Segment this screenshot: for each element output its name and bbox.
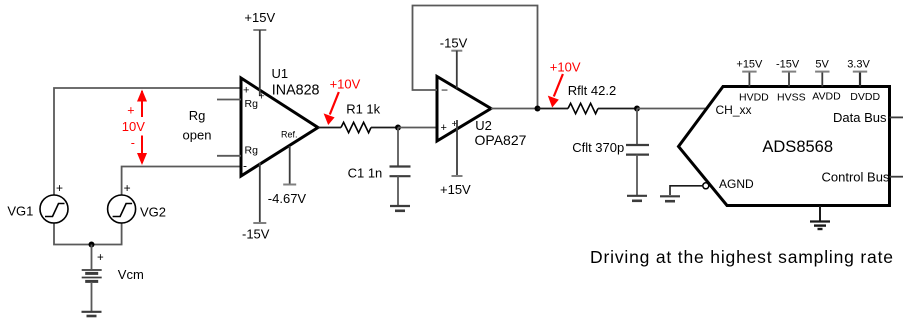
svg-text:+15V: +15V — [244, 10, 275, 25]
wire node down to C1 — [397, 128, 399, 167]
svg-text:Rg: Rg — [245, 145, 259, 157]
svg-text:AVDD: AVDD — [812, 90, 841, 102]
wire VG2 bottom to node — [92, 223, 122, 245]
wire node down to Cflt — [636, 109, 638, 145]
U1 positive supply pin +15V — [253, 30, 266, 96]
capacitor Cflt — [626, 145, 649, 155]
U1 Ref pin — [283, 146, 296, 185]
U2 feedback loop wire — [413, 6, 538, 109]
svg-text:HVDD: HVDD — [739, 91, 769, 103]
node junction R1/C1/U2 — [395, 125, 401, 131]
ground at AGND — [660, 196, 680, 201]
svg-text:INA828: INA828 — [272, 82, 320, 98]
svg-text:R1 1k: R1 1k — [346, 102, 380, 117]
AVDD supply pin 5V — [815, 72, 829, 87]
svg-text:5V: 5V — [815, 58, 829, 70]
U2 negative supply pin -15V — [451, 51, 462, 89]
node junction U2 output/feedback — [535, 106, 541, 112]
svg-text:open: open — [183, 127, 212, 142]
svg-text:C1 1n: C1 1n — [348, 166, 383, 181]
red annotation arrow +10V at U1 output — [324, 92, 339, 125]
svg-text:U1: U1 — [272, 66, 289, 81]
HVSS supply pin -15V — [782, 72, 796, 87]
svg-text:Ref.: Ref. — [281, 130, 298, 140]
U1 Rg pin stub lower (open) — [217, 155, 241, 157]
svg-text:DVDD: DVDD — [850, 91, 880, 103]
op-amp U1 INA828 triangle — [241, 78, 318, 176]
wire battery to ground — [91, 282, 93, 311]
wire C1 to ground — [397, 176, 399, 205]
svg-text:+: + — [259, 91, 265, 103]
svg-text:3.3V: 3.3V — [847, 58, 870, 70]
svg-text:+: + — [97, 252, 104, 264]
svg-text:U2: U2 — [475, 118, 492, 133]
red annotation arrow +10V at U2 output — [548, 74, 563, 108]
wire Cflt to ground — [636, 155, 638, 195]
svg-text:-4.67V: -4.67V — [268, 191, 307, 206]
wire node to Rflt — [538, 108, 569, 110]
node junction Rflt/Cflt/ADC — [634, 106, 640, 112]
wire R1 to node — [371, 127, 398, 129]
capacitor C1 — [390, 167, 411, 177]
svg-text:-: - — [243, 159, 247, 173]
voltage source VG1 — [40, 195, 68, 223]
svg-text:CH_xx: CH_xx — [716, 103, 752, 117]
wire VG1 bottom to node — [54, 223, 92, 245]
ground below C1 — [390, 206, 410, 211]
DVDD supply pin 3.3V — [853, 72, 867, 87]
svg-text:Data Bus: Data Bus — [833, 110, 887, 125]
svg-text:-: - — [131, 136, 135, 150]
resistor R1 — [341, 122, 371, 132]
ADC ADS8568 body — [679, 87, 890, 206]
svg-text:+15V: +15V — [736, 58, 763, 70]
svg-text:−: − — [441, 83, 448, 97]
svg-text:+15V: +15V — [440, 182, 471, 197]
U2 positive supply pin +15V — [452, 120, 463, 176]
svg-text:Driving at the highest samplin: Driving at the highest sampling rate — [590, 247, 894, 267]
svg-text:VG1: VG1 — [7, 203, 33, 218]
wire AGND to ground — [670, 186, 703, 195]
pin stub Data Bus — [890, 116, 904, 118]
svg-text:+: + — [243, 85, 249, 97]
svg-text:HVSS: HVSS — [777, 91, 806, 103]
red measurement arrow +10V between input wires — [137, 90, 147, 166]
ground below Cflt — [627, 196, 647, 201]
wire Rflt to node — [598, 108, 637, 110]
svg-text:AGND: AGND — [719, 177, 754, 191]
svg-text:Rg: Rg — [189, 108, 206, 123]
svg-text:-15V: -15V — [242, 227, 270, 242]
wire VG1 top to U1 + input — [54, 88, 240, 195]
pin stub Control Bus — [890, 176, 904, 178]
svg-text:+: + — [124, 181, 131, 195]
wire U1 output to R1 — [318, 127, 341, 129]
svg-text:-15V: -15V — [776, 58, 800, 70]
svg-text:+: + — [56, 181, 63, 195]
svg-text:-15V: -15V — [440, 36, 468, 51]
wire U2 output to feedback node — [491, 108, 538, 110]
svg-text:Rg: Rg — [245, 98, 259, 110]
svg-text:ADS8568: ADS8568 — [762, 138, 833, 156]
U1 negative supply pin -15V — [253, 163, 266, 224]
svg-text:Vcm: Vcm — [118, 267, 144, 282]
battery Vcm — [82, 270, 102, 281]
svg-text:+: + — [441, 122, 447, 134]
ground below ADS8568 — [810, 222, 830, 230]
voltage source VG2 — [108, 195, 136, 223]
U1 Rg pin stub upper (open) — [217, 99, 241, 101]
resistor Rflt — [568, 103, 598, 113]
svg-text:OPA827: OPA827 — [475, 132, 527, 148]
AGND open pin circle — [703, 183, 709, 189]
wire VG2 top to U1 - input — [122, 167, 240, 196]
op-amp U2 OPA827 triangle — [437, 77, 491, 142]
svg-text:Rflt 42.2: Rflt 42.2 — [568, 83, 616, 98]
HVDD supply pin +15V — [742, 72, 756, 87]
svg-text:VG2: VG2 — [140, 204, 166, 219]
node junction VG1/VG2/Vcm — [89, 242, 95, 248]
svg-text:Control Bus: Control Bus — [822, 169, 890, 184]
ground below Vcm — [82, 312, 102, 316]
svg-text:Cflt 370p: Cflt 370p — [572, 140, 624, 155]
wire node to ADS8568 CH_xx — [637, 108, 710, 110]
wire node to Vcm battery — [91, 245, 93, 270]
svg-text:10V: 10V — [122, 119, 145, 134]
svg-text:+10V: +10V — [550, 60, 581, 75]
wire node to U2 + input — [398, 127, 437, 129]
svg-text:+: + — [127, 103, 134, 117]
ADS8568 bottom ground stub — [819, 206, 821, 221]
svg-text:+10V: +10V — [330, 77, 361, 92]
